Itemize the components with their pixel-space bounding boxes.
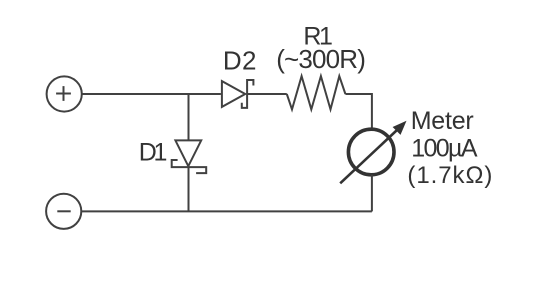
- terminal + (positive input): [47, 76, 82, 111]
- meter M1 body circle: [348, 129, 394, 175]
- zener diode D1 triangle: [175, 140, 201, 166]
- meter M1 adjustment arrow shaft: [340, 131, 396, 184]
- svg-text:100µA: 100µA: [411, 134, 478, 162]
- svg-text:(1.7kΩ): (1.7kΩ): [407, 162, 492, 189]
- svg-text:D2: D2: [223, 46, 257, 76]
- wire: D1 cathode down to bottom rail: [188, 167, 190, 211]
- svg-text:Meter: Meter: [411, 107, 474, 135]
- resistor R1 zigzag: [287, 76, 346, 109]
- wire branch: top node down to D1: [188, 94, 190, 140]
- wire top: + terminal to D2 anode: [82, 93, 221, 95]
- diode D2 triangle: [222, 81, 245, 107]
- svg-text:(~300R): (~300R): [276, 44, 366, 74]
- wire bottom rail: - terminal to meter branch: [81, 210, 372, 212]
- terminal - (negative input): [46, 194, 81, 229]
- meter M1 arrowhead: [393, 121, 407, 135]
- wire: meter bottom to bottom rail: [371, 175, 373, 212]
- diode D2 cathode bar (bent zener-style): [242, 80, 254, 108]
- svg-text:D1: D1: [139, 138, 168, 166]
- wire: D2 cathode to resistor R1: [247, 93, 287, 95]
- zener diode D1 cathode bar (bent): [172, 160, 207, 173]
- wire: R1 to meter top: [345, 94, 372, 129]
